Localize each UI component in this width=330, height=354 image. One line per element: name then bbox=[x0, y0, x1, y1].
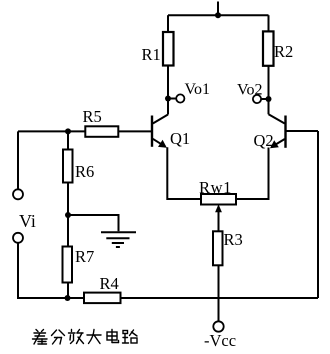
node Vo2 terminal bbox=[253, 95, 261, 103]
svg-text:Vo1: Vo1 bbox=[185, 81, 211, 98]
wire lower terminal to bottom rail bbox=[18, 243, 84, 298]
wire Rw1 wiper bbox=[218, 209, 220, 231]
svg-text:R6: R6 bbox=[75, 162, 94, 181]
wire Q1 emitter lead bbox=[167, 147, 201, 199]
resistor R3 bbox=[213, 231, 223, 265]
char 大 bbox=[87, 330, 101, 344]
node Vo1 junction bbox=[165, 96, 171, 102]
wire Vo1 stub bbox=[168, 98, 176, 100]
svg-text:Q2: Q2 bbox=[254, 131, 274, 150]
wire R2 top lead bbox=[268, 15, 270, 31]
node -Vcc terminal bbox=[213, 321, 223, 331]
ground bbox=[101, 232, 136, 247]
wire Q2 base lead to right rail bbox=[287, 130, 319, 132]
wire R3 bottom to -Vcc bbox=[218, 265, 220, 321]
node Vi upper terminal bbox=[13, 189, 23, 199]
wire Q2 emitter lead bbox=[236, 148, 269, 200]
wire input rail to R5 bbox=[18, 130, 85, 132]
transistor Q1 bbox=[152, 115, 168, 148]
resistor R5 bbox=[85, 126, 118, 137]
wire right feedback rail bbox=[317, 131, 319, 298]
svg-text:R7: R7 bbox=[75, 247, 94, 266]
wire R7 bottom lead bbox=[67, 283, 69, 299]
node Vi lower terminal bbox=[13, 233, 23, 243]
node bottom rail junction bbox=[65, 295, 71, 301]
svg-text:R5: R5 bbox=[83, 107, 102, 126]
wire left input drop bbox=[17, 131, 19, 189]
svg-text:-Vcc: -Vcc bbox=[204, 331, 236, 349]
wire bottom rail bbox=[121, 297, 319, 299]
transistor Q2 bbox=[269, 114, 286, 148]
node top supply junction bbox=[215, 12, 221, 18]
potentiometer Rw1 bbox=[201, 194, 236, 205]
wire R1 top lead bbox=[167, 15, 169, 32]
title 差分放大电路 bbox=[33, 330, 138, 345]
resistor R6 bbox=[63, 150, 73, 183]
char 放 bbox=[69, 330, 84, 344]
resistor R4 bbox=[84, 293, 121, 304]
resistor R1 bbox=[163, 32, 174, 66]
svg-text:Q1: Q1 bbox=[170, 129, 190, 148]
svg-text:R4: R4 bbox=[100, 274, 119, 293]
svg-text:R3: R3 bbox=[224, 230, 243, 249]
wire Vo2 stub bbox=[261, 98, 269, 100]
svg-text:Vo2: Vo2 bbox=[237, 82, 263, 99]
char 电 bbox=[107, 330, 119, 343]
svg-text:R2: R2 bbox=[274, 42, 293, 61]
wire R2 bottom to Q2 collector bbox=[268, 66, 270, 115]
node ground junction bbox=[65, 212, 71, 218]
wire top rail bbox=[168, 14, 269, 16]
char 路 bbox=[123, 330, 138, 343]
wire R6 top lead bbox=[67, 131, 69, 149]
wire R7 top lead bbox=[67, 215, 69, 247]
resistor R7 bbox=[63, 247, 73, 283]
wire R6 bottom lead bbox=[67, 183, 69, 216]
char 分 bbox=[52, 330, 65, 344]
node Vo2 junction bbox=[266, 96, 272, 102]
wire Q1 base lead bbox=[118, 130, 151, 132]
resistor R2 bbox=[263, 31, 274, 65]
wire R1 bottom to Q1 collector bbox=[167, 66, 169, 115]
node Vo1 terminal bbox=[176, 94, 184, 102]
wiper arrowhead bbox=[215, 204, 222, 212]
char 差 bbox=[33, 330, 48, 345]
svg-text:Rw1: Rw1 bbox=[199, 178, 232, 197]
svg-text:Vi: Vi bbox=[19, 211, 36, 231]
node R6 top junction bbox=[65, 128, 71, 134]
wire top supply stub bbox=[217, 2, 219, 16]
svg-text:R1: R1 bbox=[142, 45, 161, 64]
wire to ground bbox=[68, 215, 119, 231]
